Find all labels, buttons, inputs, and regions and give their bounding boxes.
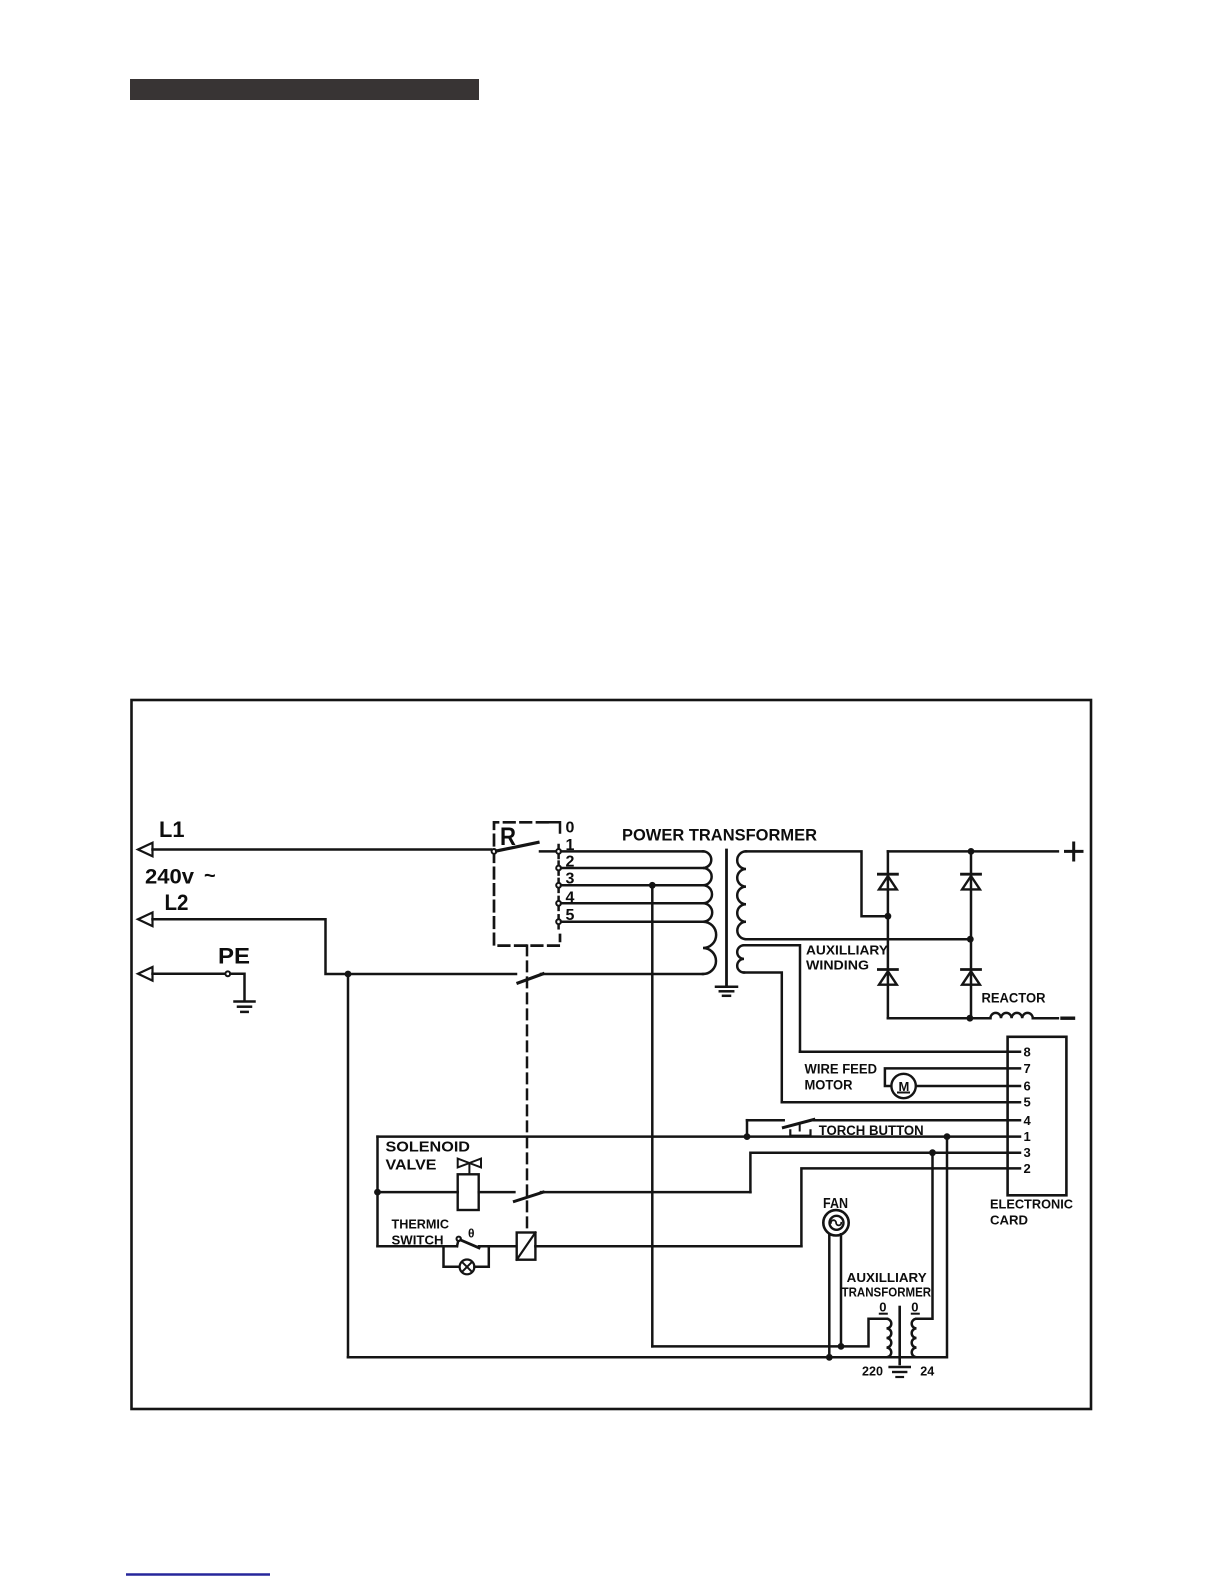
switch thermic contact [457, 1241, 458, 1246]
node junction minus rail [967, 1015, 974, 1022]
svg-text:POWER TRANSFORMER: POWER TRANSFORMER [622, 826, 817, 845]
svg-text:THERMIC: THERMIC [392, 1217, 450, 1232]
wire solenoid valve [378, 1191, 458, 1194]
transformer T1 auxiliary winding [737, 945, 744, 972]
svg-text:R: R [500, 823, 516, 851]
wire tap 3 [561, 884, 703, 887]
svg-text:CARD: CARD [990, 1213, 1028, 1228]
node tap 1 contact [557, 845, 560, 858]
wire aux winding bottom to pin 5 [744, 973, 782, 1103]
node junction tap3 [649, 882, 656, 889]
wire PE lead [153, 973, 226, 976]
wire pin 8 from aux top [800, 1051, 1020, 1054]
wire tap3 rail to aux primary [652, 1319, 887, 1347]
lamp thermic bypass [444, 1246, 460, 1267]
svg-text:VALVE: VALVE [386, 1157, 437, 1174]
switch R pole 1 common contact [492, 849, 497, 854]
node tap 2 contact [557, 862, 560, 875]
node PE terminal arrow [138, 967, 153, 981]
tap 0 underline left [880, 1313, 887, 1315]
wire 24 winding top to pin3 [917, 1153, 933, 1319]
transformer T2 core [898, 1307, 901, 1364]
wire fan left [828, 1234, 831, 1357]
diode D4 [962, 968, 981, 971]
wire aux winding top to pin 8 [744, 945, 800, 1052]
wire tap 2 [561, 867, 703, 870]
node tap 3 contact [557, 879, 560, 892]
svg-text:SWITCH: SWITCH [392, 1232, 444, 1247]
svg-text:2: 2 [566, 854, 575, 871]
svg-text:4: 4 [1024, 1113, 1032, 1128]
node junction plus rail [968, 848, 975, 855]
svg-text:5: 5 [1024, 1095, 1031, 1110]
svg-text:6: 6 [1024, 1079, 1031, 1094]
wire thermic to pin2 [535, 1245, 801, 1248]
relay coil K1 [517, 1233, 536, 1260]
svg-text:AUXILLIARY: AUXILLIARY [847, 1270, 927, 1285]
wire pin 6 from motor [916, 1085, 1020, 1088]
ground T2 earth [890, 1366, 910, 1369]
switch R pole 1 blade [497, 842, 539, 851]
node L1 terminal arrow [138, 843, 153, 857]
wire pin 5 from aux bottom [782, 1101, 1020, 1104]
diode D2 [962, 873, 981, 876]
node junction fan right [838, 1343, 845, 1350]
switch solenoid contact blade [514, 1192, 543, 1201]
minus output symbol [1062, 1017, 1074, 1020]
svg-text:220: 220 [862, 1364, 883, 1379]
svg-text:24: 24 [920, 1364, 935, 1379]
svg-text:0: 0 [879, 1300, 886, 1315]
wire secondary bottom to bridge [746, 938, 970, 941]
wire tap 4 [561, 902, 703, 905]
wire tap3 vertical down to auxiliary transformer [651, 885, 654, 1346]
wire tap 5 [561, 920, 703, 923]
diode D1 [878, 873, 897, 876]
transformer T1 secondary winding [737, 851, 746, 939]
wire secondary top to bridge [746, 851, 888, 916]
node L2 terminal arrow [138, 913, 153, 927]
tap 0 underline right [912, 1313, 919, 1315]
wire PE to ground [230, 974, 244, 1000]
node junction pin1/aux24 [944, 1133, 951, 1140]
svg-text:TORCH BUTTON: TORCH BUTTON [819, 1123, 924, 1138]
wire pin 3 line [750, 1153, 1020, 1192]
svg-text:0: 0 [911, 1300, 918, 1315]
svg-text:3: 3 [1024, 1145, 1031, 1160]
svg-text:3: 3 [566, 871, 575, 888]
svg-text:2: 2 [1024, 1161, 1031, 1176]
wire negative rail to reactor [888, 1017, 991, 1020]
transformer T2 primary 220 winding [887, 1319, 892, 1357]
header redacted title bar [130, 79, 479, 100]
wire fan right [840, 1234, 843, 1346]
wire bridge left leg [887, 851, 890, 1018]
wire bottom rail [348, 1356, 946, 1359]
solenoid coil body [458, 1174, 479, 1210]
ground PE earth symbol [235, 1000, 255, 1003]
ground T1 core earth [716, 986, 737, 989]
switch torch button [814, 1119, 1020, 1122]
wire pin 1 line [378, 1135, 1021, 1138]
node tap 5 contact [557, 915, 560, 928]
wire L2 vertical down to auxiliary transformer rail [347, 974, 350, 1357]
svg-text:WIRE FEED: WIRE FEED [805, 1062, 878, 1077]
node junction pin3/aux24 [929, 1149, 936, 1156]
node junction L2 bottom [345, 971, 352, 978]
plus output symbol [1066, 850, 1083, 853]
svg-text:5: 5 [566, 907, 575, 924]
svg-text:θ: θ [468, 1227, 475, 1241]
node junction secondary bottom / bridge [967, 936, 974, 943]
wire blade to tap 1 [540, 850, 556, 853]
wire solenoid branch left vertical [376, 1137, 379, 1247]
svg-text:WINDING: WINDING [806, 958, 869, 973]
electronic card U1 [1008, 1037, 1067, 1196]
svg-text:1: 1 [566, 837, 575, 854]
fan motor [823, 1210, 848, 1235]
svg-text:L1: L1 [159, 817, 185, 842]
schematic frame [132, 700, 1092, 1409]
transformer T1 primary winding [703, 851, 716, 974]
svg-text:AUXILLIARY: AUXILLIARY [806, 943, 888, 958]
svg-text:MOTOR: MOTOR [805, 1077, 853, 1092]
node junction fan left [826, 1354, 833, 1361]
switch R dashed enclosure [494, 822, 560, 945]
svg-text:ELECTRONIC: ELECTRONIC [990, 1197, 1074, 1212]
wire L2 right then down then right to switch pole 2 [153, 919, 517, 974]
node PE open terminal [225, 971, 230, 976]
wire bridge right leg [970, 851, 973, 1018]
mechanical link dashed R to relay [526, 946, 529, 1233]
node junction secondary top / bridge [885, 913, 892, 920]
svg-text:SOLENOID: SOLENOID [386, 1139, 471, 1156]
svg-text:L2: L2 [165, 890, 189, 915]
svg-text:1: 1 [1024, 1129, 1031, 1144]
node junction torch/pin1 [744, 1133, 751, 1140]
svg-text:PE: PE [218, 944, 250, 969]
svg-text:~: ~ [204, 865, 216, 887]
svg-text:TRANSFORMER: TRANSFORMER [842, 1284, 932, 1299]
svg-text:4: 4 [566, 890, 575, 907]
switch R pole 2 blade [518, 974, 543, 983]
transformer T2 secondary 24 winding [912, 1319, 917, 1357]
svg-text:FAN: FAN [823, 1196, 848, 1212]
node junction solenoid [374, 1189, 381, 1196]
transformer T1 core [725, 850, 728, 985]
wire positive rail [888, 850, 1058, 853]
valve symbol [458, 1159, 470, 1168]
wire pin 7 to motor [885, 1068, 1020, 1086]
svg-text:M: M [899, 1079, 910, 1094]
node tap 4 contact [557, 897, 560, 910]
footer rule [126, 1573, 270, 1576]
node tap 0 stub [548, 822, 561, 832]
inductor reactor coil [990, 1013, 1032, 1018]
wire pole2 to primary bottom [541, 973, 703, 976]
wire L1 to switch R common [153, 848, 492, 851]
torch button actuator [799, 1125, 801, 1131]
diode D3 [878, 968, 897, 971]
wire tap 1 [561, 850, 703, 853]
wire thermic line [378, 1245, 458, 1248]
svg-text:240v: 240v [145, 866, 194, 889]
svg-text:0: 0 [566, 820, 575, 837]
motor M wire feed [891, 1074, 915, 1098]
svg-text:7: 7 [1024, 1061, 1031, 1076]
wire pin 2 line [801, 1168, 1020, 1246]
svg-text:REACTOR: REACTOR [982, 991, 1046, 1006]
wire 24 winding bottom to pin1 [946, 1137, 949, 1358]
svg-text:8: 8 [1024, 1044, 1031, 1059]
